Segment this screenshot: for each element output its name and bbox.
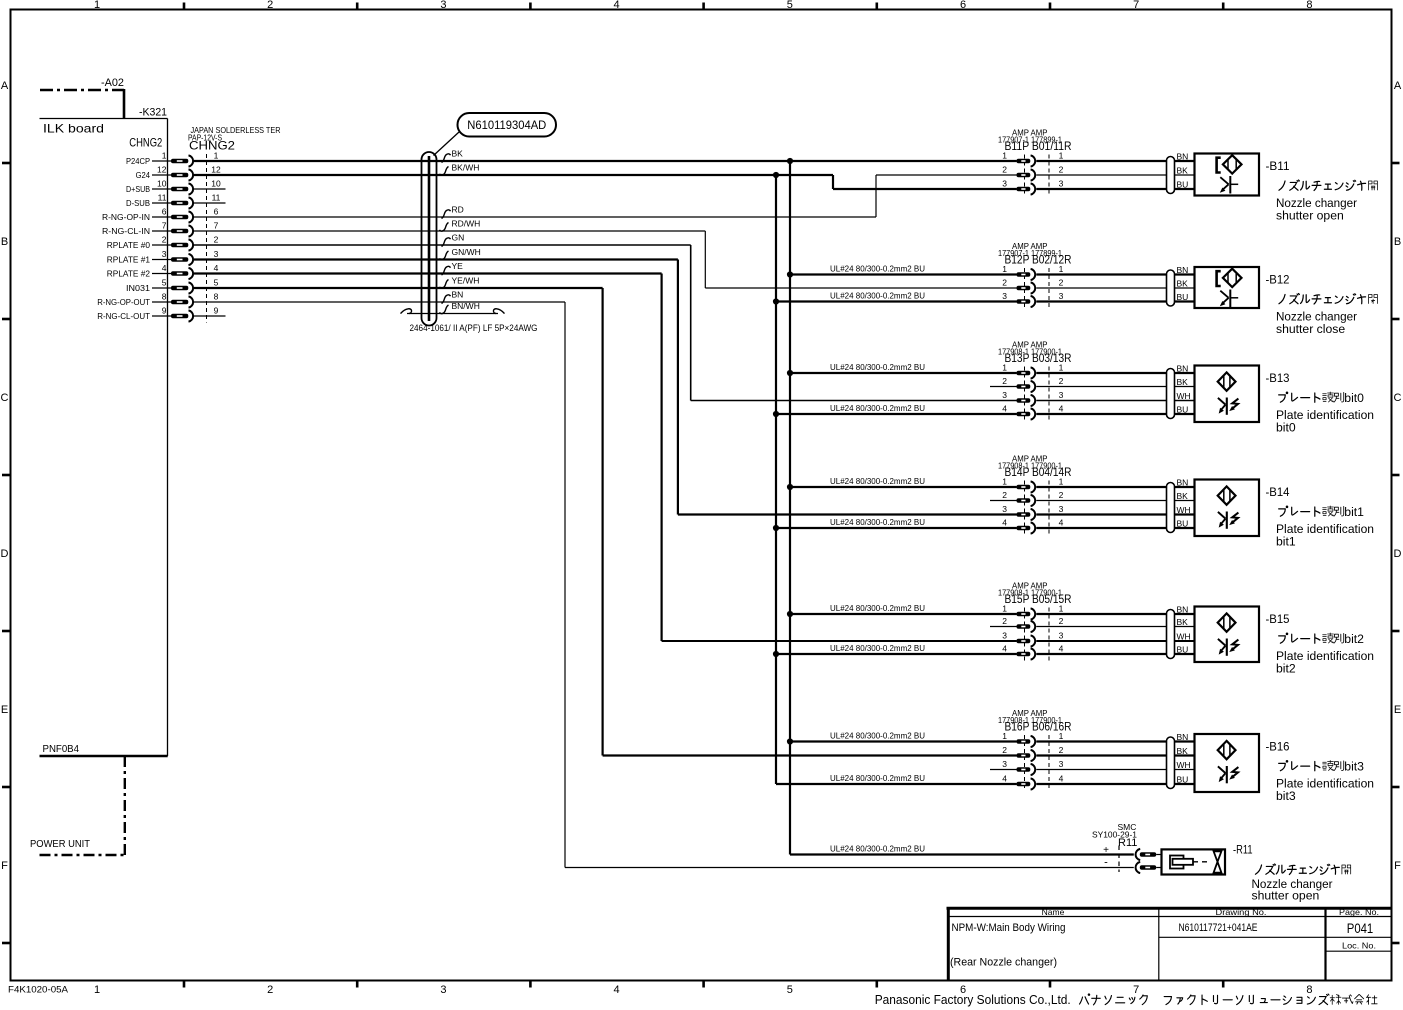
sensor reference label -B11	[1266, 161, 1290, 173]
wire colour label BK/WH	[440, 163, 480, 176]
wire YE: RPLATE #2 pin4 to B15 pin3	[194, 274, 1017, 642]
svg-text:2: 2	[1059, 745, 1064, 755]
svg-text:E: E	[1, 704, 8, 716]
svg-text:R-NG-OP-IN: R-NG-OP-IN	[102, 212, 150, 222]
svg-text:BU: BU	[1177, 180, 1189, 190]
connector B13 mating lines (dashed)	[1025, 367, 1050, 421]
svg-text:2: 2	[1002, 745, 1007, 755]
svg-text:2: 2	[267, 984, 273, 996]
svg-text:1: 1	[1059, 151, 1064, 161]
wire colour label BK at B11	[1177, 166, 1189, 176]
wire BU B15 pin 4 to sensor	[1036, 653, 1194, 655]
svg-text:2: 2	[1059, 278, 1064, 288]
wire stub pin10 D+SUB	[194, 188, 226, 190]
svg-text:GN/WH: GN/WH	[452, 247, 481, 257]
svg-text:GN: GN	[452, 233, 465, 243]
svg-text:UL#24 80/300-0.2mm2 BU: UL#24 80/300-0.2mm2 BU	[830, 773, 925, 783]
svg-text:3: 3	[440, 984, 446, 996]
wire colour label BK at B13	[1177, 377, 1189, 387]
wire colour label YE/WH	[440, 276, 480, 289]
svg-text:R11: R11	[1118, 837, 1137, 849]
svg-text:bit1: bit1	[1344, 505, 1364, 519]
wire colour label BN at B12	[1177, 265, 1189, 275]
connector PNF0B4 edge	[40, 744, 168, 756]
svg-text:3: 3	[1002, 291, 1007, 301]
wire colour label WH at B13	[1177, 391, 1191, 401]
svg-text:UL#24 80/300-0.2mm2 BU: UL#24 80/300-0.2mm2 BU	[830, 643, 925, 653]
svg-text:2: 2	[267, 0, 273, 11]
svg-text:-R11: -R11	[1233, 845, 1253, 857]
sensor -B16 box	[1195, 734, 1260, 792]
sensor function label B15	[1276, 632, 1374, 676]
wire colour label WH at B14	[1177, 505, 1191, 515]
wire BN B13 pin 1 to sensor	[1036, 372, 1194, 374]
svg-text:8: 8	[214, 292, 219, 302]
valve function label	[1252, 864, 1351, 903]
svg-text:F: F	[1, 860, 8, 872]
svg-text:-A02: -A02	[101, 77, 124, 89]
svg-text:RPLATE #2: RPLATE #2	[107, 269, 150, 279]
title block	[947, 907, 1392, 981]
svg-text:RD/WH: RD/WH	[452, 219, 481, 229]
svg-text:UL#24 80/300-0.2mm2 BU: UL#24 80/300-0.2mm2 BU	[830, 603, 925, 613]
svg-text:YE/WH: YE/WH	[452, 276, 480, 286]
connector B15 pin 4	[1002, 644, 1063, 660]
svg-text:BK: BK	[452, 149, 464, 159]
svg-text:8: 8	[1306, 984, 1312, 996]
svg-text:Page. No.: Page. No.	[1339, 907, 1379, 917]
svg-text:2: 2	[1002, 376, 1007, 386]
svg-text:3: 3	[1002, 179, 1007, 189]
wire BK B12 pin 2 to sensor	[1036, 287, 1194, 289]
svg-text:RD: RD	[452, 205, 464, 215]
svg-text:1: 1	[1059, 604, 1064, 614]
sensor reference label -B16	[1266, 742, 1290, 754]
svg-text:4: 4	[1059, 404, 1064, 414]
sensor -B12 box	[1195, 267, 1260, 308]
wire colour label BU at B13	[1177, 405, 1189, 415]
svg-text:2: 2	[1059, 165, 1064, 175]
svg-text:3: 3	[162, 249, 167, 259]
connector R11 polarity + / -	[1103, 845, 1109, 869]
svg-text:5: 5	[787, 0, 793, 11]
connector R11 mating line (dashed)	[1118, 846, 1120, 873]
connector B16 pin 4	[1002, 774, 1063, 790]
wire colour label BN at B16	[1177, 732, 1189, 742]
svg-text:shutter open: shutter open	[1252, 889, 1320, 903]
connector B15P / B05/15R labels	[998, 581, 1072, 607]
svg-text:4: 4	[1002, 644, 1007, 654]
cable sheath oval B11	[1167, 157, 1175, 194]
sensor function label B13	[1276, 391, 1374, 435]
svg-text:1: 1	[1002, 731, 1007, 741]
wire colour label YE	[442, 261, 464, 275]
connector R11 plus contact	[1136, 849, 1162, 860]
connector B14P / B04/14R labels	[998, 454, 1072, 480]
svg-text:NPM-W:Main Body Wiring: NPM-W:Main Body Wiring	[952, 922, 1066, 934]
svg-text:bit2: bit2	[1276, 662, 1296, 676]
svg-text:UL#24 80/300-0.2mm2 BU: UL#24 80/300-0.2mm2 BU	[830, 476, 925, 486]
connector CHNG2 mating line (dashed)	[206, 154, 208, 323]
connector R11 labels (SMC SY100-29-1)	[1092, 822, 1137, 849]
sensor reference label -B12	[1266, 275, 1290, 287]
connector B16 pin 3	[990, 759, 1064, 775]
svg-text:1: 1	[1059, 477, 1064, 487]
wire BN B16 pin 1 to sensor	[1036, 740, 1194, 742]
svg-text:1: 1	[162, 151, 167, 161]
svg-text:7: 7	[1133, 0, 1139, 11]
wire colour label BU at B14	[1177, 519, 1189, 529]
svg-text:11: 11	[212, 193, 221, 203]
svg-text:UL#24 80/300-0.2mm2 BU: UL#24 80/300-0.2mm2 BU	[830, 844, 925, 854]
junction B15p1	[787, 611, 793, 617]
wire UL#24 to R11 plus	[790, 844, 1134, 855]
wire BU B16 pin 4 to sensor	[1036, 783, 1194, 785]
svg-text:bit0: bit0	[1276, 421, 1296, 435]
junction B16p1	[787, 738, 793, 744]
svg-text:R-NG-CL-OUT: R-NG-CL-OUT	[97, 311, 150, 321]
svg-text:bit0: bit0	[1344, 391, 1364, 405]
svg-text:(Rear Nozzle changer): (Rear Nozzle changer)	[950, 957, 1057, 969]
wire WH B16 pin 3 to sensor	[1036, 769, 1194, 771]
wire BU B12 pin 3 to sensor	[1036, 300, 1194, 302]
svg-text:3: 3	[214, 249, 219, 259]
svg-text:6: 6	[214, 207, 219, 217]
wire BN B14 pin 1 to sensor	[1036, 486, 1194, 488]
connector B14 pin 1	[1002, 477, 1063, 493]
svg-text:-B15: -B15	[1266, 614, 1290, 626]
svg-text:UL#24 80/300-0.2mm2 BU: UL#24 80/300-0.2mm2 BU	[830, 403, 925, 413]
svg-text:1: 1	[1002, 264, 1007, 274]
svg-text:1: 1	[1059, 264, 1064, 274]
svg-text:BK: BK	[1177, 746, 1189, 756]
svg-text:G24: G24	[136, 170, 151, 180]
svg-text:BU: BU	[1177, 292, 1189, 302]
svg-text:BN: BN	[1177, 265, 1189, 275]
wire colour label BU at B12	[1177, 292, 1189, 302]
wire colour label RD	[442, 205, 464, 219]
wire colour label BN	[442, 290, 464, 304]
connector CHNG2 pin 7 (R-NG-CL-IN)	[102, 221, 219, 237]
svg-text:E: E	[1394, 704, 1401, 716]
svg-text:2: 2	[1002, 278, 1007, 288]
svg-text:2: 2	[1002, 490, 1007, 500]
valve reference label -R11	[1233, 845, 1253, 857]
sensor -B14 box	[1195, 480, 1260, 537]
svg-text:8: 8	[1306, 0, 1312, 11]
svg-text:5: 5	[214, 278, 219, 288]
svg-text:RPLATE #0: RPLATE #0	[107, 240, 150, 250]
connector CHNG2 pin 2 (RPLATE #0)	[107, 235, 219, 251]
svg-text:CHNG2: CHNG2	[129, 136, 162, 150]
svg-text:bit2: bit2	[1344, 632, 1364, 646]
connector B11P / B01/11R labels	[998, 128, 1072, 154]
wire colour label BK at B16	[1177, 746, 1189, 756]
wire YE/WH: IN031 pin5 to B16 pin2	[194, 288, 1017, 756]
svg-text:1: 1	[94, 984, 100, 996]
connector CHNG2 pin 11 (D-SUB)	[126, 193, 221, 209]
svg-text:shutter open: shutter open	[1276, 209, 1344, 223]
svg-text:-K321: -K321	[139, 107, 167, 119]
connector CHNG2 pin 4 (RPLATE #2)	[107, 263, 219, 279]
connector B13 pin 4	[1002, 404, 1063, 420]
svg-text:CHNG2: CHNG2	[189, 139, 235, 153]
svg-text:4: 4	[1002, 518, 1007, 528]
connector CHNG2 pin 12 (G24)	[136, 165, 221, 181]
connector B16 pin 2	[1002, 745, 1063, 761]
svg-text:BU: BU	[1177, 519, 1189, 529]
svg-text:BN: BN	[1177, 732, 1189, 742]
svg-text:bit3: bit3	[1344, 760, 1364, 774]
svg-text:R-NG-OP-OUT: R-NG-OP-OUT	[97, 297, 150, 307]
wire colour label BK at B14	[1177, 491, 1189, 501]
svg-text:-B12: -B12	[1266, 275, 1290, 287]
wire UL#24 to B15 pin1	[790, 603, 1017, 614]
svg-text:1: 1	[1059, 731, 1064, 741]
cable sheath oval B16	[1167, 737, 1175, 789]
connector CHNG2 pin 6 (R-NG-OP-IN)	[102, 207, 219, 223]
svg-text:BU: BU	[1177, 405, 1189, 415]
svg-text:BK: BK	[1177, 279, 1189, 289]
svg-text:6: 6	[960, 0, 966, 11]
svg-text:4: 4	[1002, 774, 1007, 784]
svg-text:2: 2	[214, 235, 219, 245]
svg-text:BK: BK	[1177, 617, 1189, 627]
sensor function label B16	[1276, 760, 1374, 804]
svg-text:UL#24 80/300-0.2mm2 BU: UL#24 80/300-0.2mm2 BU	[830, 731, 925, 741]
wire UL#24 to B14 pin4	[776, 517, 1017, 528]
wire colour label BK at B12	[1177, 279, 1189, 289]
wire WH B15 pin 3 to sensor	[1036, 640, 1194, 642]
junction B12p3	[773, 298, 779, 304]
svg-text:1: 1	[214, 151, 219, 161]
svg-text:BN/WH: BN/WH	[452, 301, 480, 311]
svg-text:2: 2	[1059, 376, 1064, 386]
svg-text:4: 4	[1059, 518, 1064, 528]
wire BN B12 pin 1 to sensor	[1036, 273, 1194, 275]
connector B12 mating lines (dashed)	[1025, 268, 1050, 308]
svg-text:10: 10	[157, 179, 167, 189]
svg-text:ILK board: ILK board	[43, 122, 104, 136]
svg-text:5: 5	[787, 984, 793, 996]
sensor -B11 box	[1195, 154, 1260, 196]
svg-text:N610117721+041AE: N610117721+041AE	[1179, 922, 1258, 934]
connector B15 pin 3	[1002, 631, 1063, 647]
wire colour label RD/WH	[440, 219, 481, 232]
svg-text:WH: WH	[1177, 632, 1191, 642]
svg-text:D: D	[1394, 548, 1402, 560]
wire BK B16 pin 2 to sensor	[1036, 754, 1194, 756]
svg-text:4: 4	[162, 263, 167, 273]
svg-text:P041: P041	[1347, 920, 1374, 936]
svg-text:3: 3	[1059, 631, 1064, 641]
svg-text:B: B	[1394, 236, 1401, 248]
svg-text:R-NG-CL-IN: R-NG-CL-IN	[102, 226, 150, 236]
wire BN: R-NG-OP-OUT pin8 to R11 minus	[194, 302, 1134, 868]
connector B14 pin 2	[990, 490, 1064, 506]
wire BU B13 pin 4 to sensor	[1036, 413, 1194, 415]
svg-text:BU: BU	[1177, 775, 1189, 785]
svg-text:4: 4	[214, 263, 219, 273]
wire RD: R-NG-OP-IN pin6 to B11 pin2	[194, 175, 1017, 217]
cable sheath oval B12	[1167, 270, 1175, 306]
svg-text:5: 5	[162, 278, 167, 288]
sensor reference label -B14	[1266, 487, 1291, 499]
connector B13P / B03/13R labels	[998, 340, 1072, 366]
svg-text:6: 6	[162, 207, 167, 217]
svg-text:UL#24 80/300-0.2mm2 BU: UL#24 80/300-0.2mm2 BU	[830, 517, 925, 527]
connector B14 pin 4	[1002, 518, 1063, 534]
svg-text:UL#24 80/300-0.2mm2 BU: UL#24 80/300-0.2mm2 BU	[830, 264, 925, 274]
cable sheath oval B14	[1167, 483, 1175, 533]
connector CHNG2 pin 8 (R-NG-OP-OUT)	[97, 292, 218, 308]
wire +24V bus (x=790)	[789, 161, 791, 855]
connector B13 pin 1	[1002, 363, 1063, 379]
wire BK B15 pin 2 to sensor	[1036, 626, 1194, 628]
wire WH B13 pin 3 to sensor	[1036, 400, 1194, 402]
junction +24V/B11	[787, 158, 793, 164]
svg-text:7: 7	[214, 221, 219, 231]
connector B11 pin 1	[1002, 151, 1063, 167]
svg-text:1: 1	[1059, 363, 1064, 373]
svg-text:-B14: -B14	[1266, 487, 1291, 499]
junction B14p4	[773, 525, 779, 531]
connector B14 pin 3	[1002, 504, 1063, 520]
connector B16 pin 1	[1002, 731, 1063, 747]
sheet code F4K1020-05A	[8, 985, 68, 995]
svg-text:2: 2	[1059, 490, 1064, 500]
svg-text:POWER UNIT: POWER UNIT	[30, 838, 91, 850]
sensor reference label -B15	[1266, 614, 1290, 626]
wire colour label BK	[442, 149, 464, 163]
svg-text:4: 4	[1002, 404, 1007, 414]
wire colour label GN/WH	[440, 247, 481, 260]
svg-text:7: 7	[1133, 984, 1139, 996]
wire UL#24 to B16 pin1	[790, 731, 1017, 742]
svg-text:Panasonic Factory Solutions Co: Panasonic Factory Solutions Co.,Ltd.	[875, 992, 1071, 1007]
svg-text:UL#24 80/300-0.2mm2 BU: UL#24 80/300-0.2mm2 BU	[830, 291, 925, 301]
svg-text:WH: WH	[1177, 505, 1191, 515]
connector B12 pin 2	[1002, 278, 1063, 294]
svg-text:-: -	[1104, 857, 1108, 869]
cable sheath oval B13	[1167, 369, 1175, 419]
junction B13p1	[787, 370, 793, 376]
svg-text:BK/WH: BK/WH	[452, 163, 480, 173]
svg-text:BN: BN	[1177, 152, 1189, 162]
wire UL#24 to B13 pin4	[776, 403, 1017, 414]
wire BK: P24CP pin1 to B11 pin1 / +24V bus	[194, 160, 1017, 162]
svg-text:4: 4	[1059, 774, 1064, 784]
svg-text:F: F	[1394, 860, 1401, 872]
svg-text:UL#24 80/300-0.2mm2 BU: UL#24 80/300-0.2mm2 BU	[830, 362, 925, 372]
wire UL#24 to B13 pin1	[790, 362, 1017, 373]
wire UL#24 to B12 pin1	[790, 264, 1017, 275]
ILK board block outline	[40, 119, 168, 757]
connector CHNG2 pin 5 (IN031)	[126, 278, 219, 294]
wire colour label BN at B11	[1177, 152, 1189, 162]
connector B12 pin 1	[1002, 264, 1063, 280]
svg-text:D-SUB: D-SUB	[126, 198, 150, 208]
wire BK B14 pin 2 to sensor	[1036, 500, 1194, 502]
svg-text:11: 11	[158, 193, 167, 203]
svg-text:9: 9	[214, 306, 219, 316]
svg-text:BN: BN	[1177, 364, 1189, 374]
wire GN/WH: RPLATE #1 pin3 to B14 pin3	[194, 260, 1017, 515]
wire colour label BK at B15	[1177, 617, 1189, 627]
svg-text:F4K1020-05A: F4K1020-05A	[8, 985, 68, 995]
wire BK/WH: G24 pin12 to B11 pin3 / 0V bus	[194, 175, 1017, 189]
svg-text:3: 3	[1002, 390, 1007, 400]
svg-text:N610119304AD: N610119304AD	[467, 120, 546, 132]
connector CHNG2 pin 10 (D+SUB)	[126, 179, 221, 195]
svg-text:3: 3	[1059, 179, 1064, 189]
wire UL#24 to B12 pin3	[776, 291, 1017, 302]
wire to POWER UNIT (dash-dot)	[30, 756, 125, 855]
wire BN B11 pin 1 to sensor	[1036, 160, 1194, 162]
wire colour label BN at B14	[1177, 478, 1189, 488]
svg-text:12: 12	[157, 165, 167, 175]
junction B12p1	[787, 271, 793, 277]
svg-text:Name: Name	[1042, 907, 1065, 917]
svg-text:BU: BU	[1177, 645, 1189, 655]
connector R11 minus contact	[1136, 862, 1162, 873]
svg-text:A: A	[1, 80, 9, 92]
svg-text:4: 4	[1059, 644, 1064, 654]
wire colour label BU at B15	[1177, 645, 1189, 655]
svg-text:4: 4	[614, 984, 620, 996]
svg-text:BN: BN	[1177, 605, 1189, 615]
connector B13 pin 2	[990, 376, 1064, 392]
svg-text:4: 4	[614, 0, 620, 11]
sensor function label B11	[1276, 180, 1377, 223]
cable shield oval 2464-1061	[410, 152, 538, 334]
svg-text:shutter close: shutter close	[1276, 322, 1345, 336]
svg-text:+: +	[1103, 845, 1109, 856]
sensor -B15 box	[1195, 607, 1260, 663]
connector B15 mating lines (dashed)	[1025, 608, 1050, 661]
connector B12P / B02/12R labels	[998, 241, 1072, 267]
wire colour label BN at B13	[1177, 364, 1189, 374]
wire stub pin9 R-NG-CL-OUT	[194, 315, 226, 317]
svg-text:PNF0B4: PNF0B4	[43, 744, 80, 755]
wire GN: RPLATE #0 pin2 to B13 pin3	[194, 245, 1017, 401]
svg-text:P24CP: P24CP	[126, 156, 150, 166]
connector B16 mating lines (dashed)	[1025, 735, 1050, 791]
connector B15 pin 2	[990, 616, 1064, 632]
junction B14p1	[787, 484, 793, 490]
svg-text:WH: WH	[1177, 391, 1191, 401]
sensor function label B12	[1276, 293, 1377, 336]
wire colour label BU at B11	[1177, 180, 1189, 190]
svg-text:BN: BN	[1177, 478, 1189, 488]
connector CHNG2 pin 1 (P24CP)	[126, 151, 219, 167]
svg-text:3: 3	[1059, 291, 1064, 301]
wire BN B15 pin 1 to sensor	[1036, 613, 1194, 615]
svg-text:BK: BK	[1177, 491, 1189, 501]
connector B11 pin 3	[1002, 179, 1063, 195]
svg-text:B: B	[1, 236, 8, 248]
svg-text:IN031: IN031	[126, 283, 150, 293]
svg-text:10: 10	[211, 179, 221, 189]
wire WH B14 pin 3 to sensor	[1036, 513, 1194, 515]
svg-text:1: 1	[94, 0, 100, 11]
svg-text:8: 8	[162, 292, 167, 302]
wire UL#24 to B15 pin4	[776, 643, 1017, 654]
junction B13p4	[773, 411, 779, 417]
wire colour label WH at B15	[1177, 632, 1191, 642]
svg-text:7: 7	[162, 221, 167, 231]
svg-text:2: 2	[1002, 616, 1007, 626]
